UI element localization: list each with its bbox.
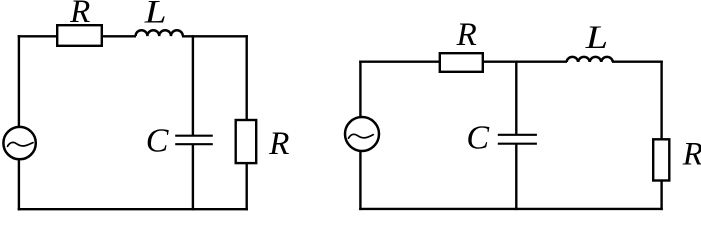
capacitor C2 top plate (right circuit) bbox=[498, 134, 537, 136]
resistor R2 (left circuit, right branch) bbox=[236, 120, 257, 163]
inductor L1 (left circuit, top) bbox=[136, 30, 183, 36]
svg-text:L: L bbox=[585, 20, 609, 56]
wire: left circuit top, inductor L1 to top-right corner bbox=[182, 35, 248, 37]
wire: right circuit capacitor branch upper segment bbox=[515, 61, 517, 135]
wire: right circuit top, resistor R3 to inductor L2 bbox=[483, 61, 568, 63]
inductor L2 (right circuit, top) bbox=[567, 57, 613, 62]
svg-text:R: R bbox=[456, 17, 477, 53]
resistor R3 (right circuit, top) bbox=[440, 53, 483, 72]
wire: right circuit capacitor branch lower segment bbox=[515, 144, 517, 210]
svg-text:C: C bbox=[146, 122, 169, 159]
wire: left circuit right branch upper segment bbox=[245, 35, 247, 120]
svg-text:R: R bbox=[69, 0, 90, 30]
capacitor C1 bottom plate (left circuit) bbox=[175, 143, 213, 145]
resistor R4 (right circuit, right branch) bbox=[653, 139, 669, 180]
capacitor C1 top plate (left circuit) bbox=[175, 135, 213, 137]
wire: left circuit capacitor branch lower segment bbox=[192, 144, 194, 210]
wire: right circuit right branch lower segment bbox=[660, 180, 662, 210]
svg-text:R: R bbox=[268, 126, 289, 162]
wire: right circuit left vertical (source branch) bbox=[359, 61, 361, 211]
wire: left circuit top, source to resistor R1 bbox=[18, 35, 58, 37]
wire: left circuit top, resistor R1 to inductor L1 bbox=[102, 35, 137, 37]
wire: right circuit right branch upper segment bbox=[660, 61, 662, 140]
svg-text:C: C bbox=[466, 119, 489, 156]
wire: right circuit bottom return bbox=[359, 208, 663, 210]
wire: left circuit bottom return bbox=[18, 208, 248, 210]
wire: left circuit capacitor branch upper segment bbox=[192, 35, 194, 136]
resistor R1 (left circuit, top) bbox=[57, 25, 102, 46]
ac source V1 sine symbol bbox=[8, 142, 34, 146]
wire: left circuit left vertical (source branch) bbox=[18, 35, 20, 210]
capacitor C2 bottom plate (right circuit) bbox=[498, 143, 537, 145]
svg-text:L: L bbox=[144, 0, 167, 31]
wire: right circuit top, source to resistor R3 bbox=[359, 61, 440, 63]
ac source V2 (right circuit) bbox=[345, 117, 379, 151]
ac source V1 (left circuit) bbox=[3, 127, 35, 159]
svg-text:R: R bbox=[682, 136, 701, 172]
wire: left circuit right branch lower segment bbox=[245, 163, 247, 211]
ac source V2 sine symbol bbox=[349, 134, 374, 138]
wire: right circuit top, inductor L2 to top-right corner bbox=[612, 61, 663, 63]
